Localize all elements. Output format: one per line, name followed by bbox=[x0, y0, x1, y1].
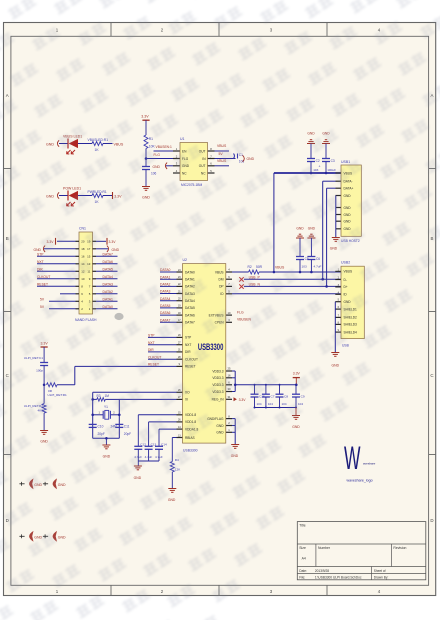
svg-text:NAND FLASH: NAND FLASH bbox=[75, 318, 97, 322]
svg-text:103: 103 bbox=[302, 264, 307, 268]
svg-text:C10: C10 bbox=[98, 425, 104, 429]
svg-text:DATA6: DATA6 bbox=[160, 311, 171, 315]
svg-text:DATA1: DATA1 bbox=[185, 278, 195, 282]
svg-text:GND: GND bbox=[296, 226, 304, 230]
svg-text:Number: Number bbox=[318, 546, 331, 550]
svg-text:GND: GND bbox=[344, 227, 352, 231]
svg-text:VDD1.8: VDD1.8 bbox=[185, 420, 196, 424]
svg-text:D+: D+ bbox=[344, 285, 348, 289]
svg-text:CN1: CN1 bbox=[79, 227, 86, 231]
svg-text:POW LED1: POW LED1 bbox=[63, 187, 81, 191]
svg-text:C7: C7 bbox=[271, 394, 275, 398]
svg-text:DIR: DIR bbox=[148, 348, 154, 352]
svg-text:GND: GND bbox=[292, 425, 300, 429]
svg-text:NXT: NXT bbox=[148, 341, 155, 345]
svg-text:C3: C3 bbox=[331, 159, 335, 163]
svg-text:GND: GND bbox=[103, 455, 111, 459]
svg-text:NC: NC bbox=[182, 171, 187, 175]
svg-text:C6: C6 bbox=[316, 257, 320, 261]
svg-text:SHIELD3: SHIELD3 bbox=[344, 323, 358, 327]
svg-text:20pF: 20pF bbox=[124, 432, 131, 436]
svg-text:RESET: RESET bbox=[37, 282, 48, 286]
svg-text:D: D bbox=[430, 518, 433, 523]
svg-text:DATA5: DATA5 bbox=[160, 304, 171, 308]
svg-text:C5: C5 bbox=[305, 257, 309, 261]
svg-text:GND: GND bbox=[58, 483, 66, 487]
svg-text:GND: GND bbox=[344, 220, 352, 224]
svg-text:OUT: OUT bbox=[199, 164, 206, 168]
svg-text:EN: EN bbox=[182, 149, 187, 153]
svg-text:VBUSLED:R1: VBUSLED:R1 bbox=[88, 138, 109, 142]
svg-text:DATA6: DATA6 bbox=[185, 313, 195, 317]
svg-text:+: + bbox=[319, 165, 321, 169]
svg-text:FLG: FLG bbox=[154, 153, 161, 157]
svg-text:GND: GND bbox=[58, 536, 66, 540]
svg-text:GND: GND bbox=[46, 195, 54, 199]
svg-text:ULPI_RET:R1: ULPI_RET:R1 bbox=[48, 393, 68, 397]
svg-text:VBUS: VBUS bbox=[114, 143, 124, 147]
svg-text:DATA4: DATA4 bbox=[103, 275, 114, 279]
svg-text:GND: GND bbox=[330, 247, 338, 251]
svg-text:File:: File: bbox=[299, 576, 305, 580]
svg-text:DIR: DIR bbox=[185, 350, 191, 354]
svg-text:10: 10 bbox=[81, 277, 85, 281]
svg-text:C8: C8 bbox=[284, 394, 288, 398]
svg-text:Drawn By:: Drawn By: bbox=[374, 576, 389, 580]
svg-text:1:\USB3300 ULPI Board.SchDoc: 1:\USB3300 ULPI Board.SchDoc bbox=[315, 576, 362, 580]
svg-text:GND: GND bbox=[308, 226, 316, 230]
svg-text:ULPI_RET:C1: ULPI_RET:C1 bbox=[24, 356, 44, 360]
svg-text:SHIELD4: SHIELD4 bbox=[344, 330, 358, 334]
svg-text:DATA6: DATA6 bbox=[103, 260, 114, 264]
svg-text:3.3V: 3.3V bbox=[109, 240, 117, 244]
svg-text:C15: C15 bbox=[259, 394, 265, 398]
svg-text:DATA5: DATA5 bbox=[185, 306, 195, 310]
svg-text:NXT: NXT bbox=[37, 260, 44, 264]
svg-text:GND: GND bbox=[40, 440, 48, 444]
svg-text:DATA2: DATA2 bbox=[160, 283, 171, 287]
svg-text:GND: GND bbox=[112, 248, 120, 252]
svg-text:VDD1.8: VDD1.8 bbox=[185, 413, 196, 417]
svg-text:10: 10 bbox=[228, 311, 231, 315]
svg-text:D-: D- bbox=[344, 278, 347, 282]
svg-text:C2: C2 bbox=[316, 159, 320, 163]
svg-text:DATA4: DATA4 bbox=[160, 297, 171, 301]
svg-text:STP: STP bbox=[185, 336, 191, 340]
svg-text:Sheet of: Sheet of bbox=[374, 569, 386, 573]
svg-text:DM: DM bbox=[219, 278, 224, 282]
svg-text:104: 104 bbox=[257, 402, 262, 406]
svg-text:25: 25 bbox=[228, 367, 231, 371]
svg-text:PWRLED:R1: PWRLED:R1 bbox=[88, 190, 107, 194]
svg-text:DATA0: DATA0 bbox=[103, 305, 114, 309]
svg-text:20: 20 bbox=[81, 240, 85, 244]
svg-text:3.3V: 3.3V bbox=[239, 398, 247, 402]
svg-text:C9: C9 bbox=[301, 394, 305, 398]
svg-text:GND: GND bbox=[307, 131, 315, 135]
svg-text:VBUS: VBUS bbox=[275, 265, 285, 269]
svg-text:Date:: Date: bbox=[299, 569, 307, 573]
svg-text:C14: C14 bbox=[161, 442, 167, 446]
svg-text:1M: 1M bbox=[105, 394, 110, 398]
svg-text:DATA7: DATA7 bbox=[185, 321, 195, 325]
svg-text:R3: R3 bbox=[97, 394, 101, 398]
svg-text:C11: C11 bbox=[124, 425, 130, 429]
svg-text:GND: GND bbox=[46, 143, 54, 147]
svg-text:GND: GND bbox=[332, 364, 340, 368]
svg-text:DATA7: DATA7 bbox=[103, 252, 114, 256]
svg-text:A: A bbox=[6, 93, 9, 98]
svg-text:DATA+: DATA+ bbox=[344, 187, 354, 191]
svg-text:VDD3.3: VDD3.3 bbox=[212, 376, 223, 380]
svg-text:GND: GND bbox=[344, 206, 352, 210]
svg-text:104: 104 bbox=[282, 402, 287, 406]
svg-text:XI: XI bbox=[185, 398, 188, 402]
svg-text:Size: Size bbox=[299, 546, 306, 550]
svg-text:17: 17 bbox=[87, 247, 91, 251]
svg-text:DP: DP bbox=[219, 285, 223, 289]
svg-text:GND: GND bbox=[134, 476, 142, 480]
svg-text:16: 16 bbox=[81, 255, 85, 259]
svg-text:18: 18 bbox=[81, 247, 85, 251]
svg-text:waveshare_logo: waveshare_logo bbox=[347, 479, 373, 483]
svg-text:U2: U2 bbox=[183, 258, 188, 262]
svg-text:10K: 10K bbox=[149, 145, 156, 149]
svg-text:VBUS: VBUS bbox=[344, 270, 353, 274]
svg-text:VBUS: VBUS bbox=[217, 144, 227, 148]
svg-text:USB2: USB2 bbox=[341, 260, 350, 264]
svg-text:GND: GND bbox=[247, 157, 255, 161]
svg-text:GND: GND bbox=[216, 424, 224, 428]
svg-text:3.3V: 3.3V bbox=[141, 115, 149, 119]
svg-text:4.7uF: 4.7uF bbox=[155, 455, 163, 459]
svg-text:GND: GND bbox=[142, 196, 150, 200]
svg-text:3.3V: 3.3V bbox=[293, 371, 301, 375]
svg-text:R1: R1 bbox=[149, 137, 153, 141]
svg-text:31: 31 bbox=[228, 395, 231, 399]
svg-text:106: 106 bbox=[151, 172, 157, 176]
svg-text:DATA0: DATA0 bbox=[185, 270, 195, 274]
svg-text:GND: GND bbox=[216, 431, 224, 435]
svg-text:VBUS: VBUS bbox=[215, 270, 224, 274]
svg-text:NXT: NXT bbox=[185, 343, 191, 347]
svg-text:USB: USB bbox=[342, 343, 350, 347]
svg-text:16: 16 bbox=[228, 374, 231, 378]
svg-text:DATA7: DATA7 bbox=[160, 318, 171, 322]
svg-text:100uF: 100uF bbox=[327, 168, 336, 172]
svg-text:Y1: Y1 bbox=[104, 405, 108, 409]
svg-text:W: W bbox=[344, 440, 361, 476]
svg-text:USB1: USB1 bbox=[341, 160, 350, 164]
svg-text:VDD3.3: VDD3.3 bbox=[212, 369, 223, 373]
svg-text:GND: GND bbox=[33, 248, 41, 252]
svg-text:2013/9/28: 2013/9/28 bbox=[315, 569, 329, 573]
svg-text:STP: STP bbox=[37, 252, 44, 256]
svg-text:GND: GND bbox=[168, 498, 176, 502]
svg-text:C: C bbox=[430, 373, 433, 378]
svg-text:15: 15 bbox=[87, 255, 91, 259]
svg-text:DATA-: DATA- bbox=[344, 180, 353, 184]
svg-text:FLG: FLG bbox=[237, 311, 244, 315]
svg-text:STP: STP bbox=[148, 334, 155, 338]
svg-text:GND: GND bbox=[344, 194, 352, 198]
svg-text:DATA3: DATA3 bbox=[103, 282, 114, 286]
svg-text:NC: NC bbox=[201, 171, 206, 175]
svg-text:Revision: Revision bbox=[393, 546, 406, 550]
svg-text:Title: Title bbox=[299, 524, 305, 528]
svg-text:50R: 50R bbox=[256, 265, 263, 269]
svg-text:GND: GND bbox=[153, 165, 161, 169]
svg-text:GND/FLAG: GND/FLAG bbox=[207, 417, 224, 421]
svg-text:USB_P: USB_P bbox=[249, 275, 261, 279]
svg-text:100p: 100p bbox=[36, 369, 43, 373]
svg-text:DATA1: DATA1 bbox=[160, 275, 171, 279]
svg-text:104: 104 bbox=[268, 402, 273, 406]
svg-text:104: 104 bbox=[298, 402, 303, 406]
svg-text:U1: U1 bbox=[180, 137, 185, 141]
svg-text:A4: A4 bbox=[302, 557, 306, 561]
svg-text:4.7uF: 4.7uF bbox=[314, 264, 322, 268]
svg-text:MIC2075-1BM: MIC2075-1BM bbox=[181, 183, 203, 187]
svg-text:aveshare: aveshare bbox=[363, 462, 376, 466]
svg-text:VBUSEN:1: VBUSEN:1 bbox=[156, 145, 172, 149]
svg-text:GND: GND bbox=[344, 213, 352, 217]
svg-text:4.7uF: 4.7uF bbox=[145, 455, 153, 459]
svg-text:R2: R2 bbox=[248, 265, 252, 269]
